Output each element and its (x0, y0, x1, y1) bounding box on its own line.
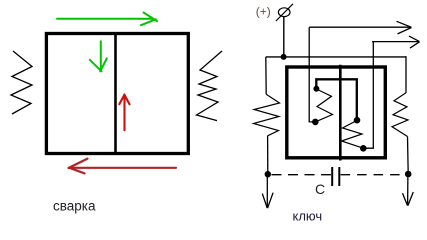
node R3 top (354, 117, 361, 124)
svg-text:C: C (315, 181, 325, 197)
wire R1 bottom to node B (267, 136, 269, 174)
welding transformer core (left rectangle) (46, 34, 188, 154)
resistor R3 (inside right zigzag) (342, 120, 364, 148)
svg-text:(+): (+) (256, 5, 271, 19)
key box (switch outline) (287, 67, 386, 158)
resistor R2 (inside left zigzag) (316, 89, 333, 122)
node R2 bottom (312, 119, 319, 126)
wire top rail (266, 56, 406, 58)
wire rail corner down right branch (405, 56, 407, 93)
red arrow left (below core) (69, 159, 177, 174)
node A (top rail junction) (281, 54, 287, 60)
terminal (+) circle with slash (276, 4, 293, 21)
resistor R4 (right outer zigzag) (392, 93, 408, 137)
arrow output 2 (372, 36, 420, 48)
dashed net (bottom rail right of capacitor) (341, 174, 408, 176)
node C junction (bottom-right) (405, 171, 412, 178)
capacitor C plates (332, 167, 339, 186)
wire output 2 drop (to R3 bottom node) (364, 42, 373, 149)
down arrow at node C (403, 174, 414, 206)
svg-text:ключ: ключ (293, 209, 323, 224)
arrow output 1 (top) (309, 21, 411, 34)
wire (+) terminal to node A (283, 17, 285, 57)
dashed net (bottom rail left of capacitor) (272, 174, 331, 176)
node B (bottom-left junction) (265, 171, 271, 177)
svg-text:сварка: сварка (53, 199, 96, 214)
resistor R1 (left outer zigzag) (254, 94, 280, 136)
wire R4 bottom to node C (407, 137, 410, 175)
key box divider (339, 65, 342, 161)
wire rail corner down to R1 (265, 57, 267, 94)
resistor (left winding zigzag) (11, 51, 32, 114)
wire output 1 drop (to R2 bottom node) (309, 27, 314, 122)
red arrow up (inside right half) (119, 95, 129, 131)
resistor (right winding zigzag) (197, 51, 223, 121)
green arrow down (inside left half) (90, 41, 107, 71)
node R2 top (313, 86, 319, 92)
core center divider (114, 32, 117, 155)
wire thick link R2 top to R3 top (316, 79, 357, 120)
green arrow top (current direction over core) (57, 13, 157, 26)
node R3 bottom (360, 145, 367, 152)
down arrow at node B (262, 174, 273, 208)
